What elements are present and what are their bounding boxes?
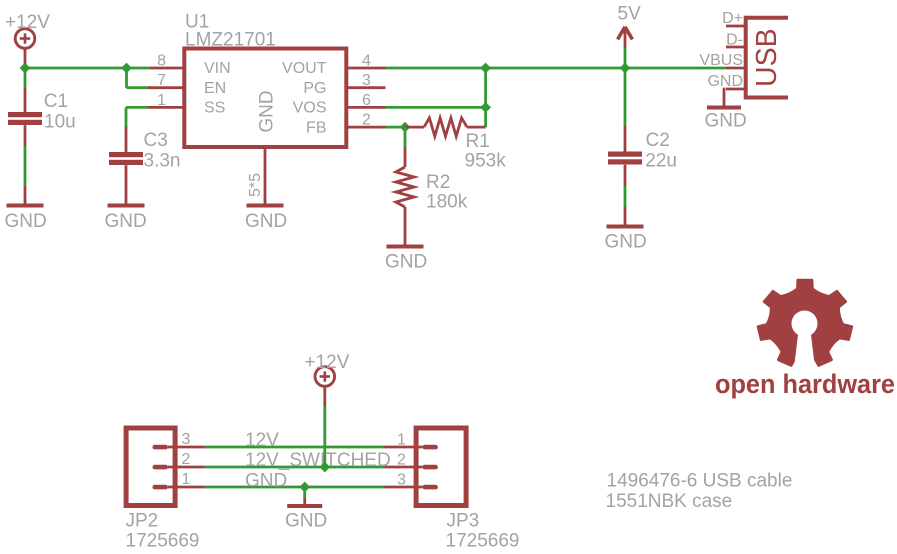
wire USB GND: [723, 88, 726, 106]
connector JP3 body: [416, 428, 519, 552]
svg-text:8: 8: [157, 52, 166, 69]
wire node E to R2: [404, 127, 407, 167]
capacitor C1: [8, 91, 76, 132]
pin 6 VOS: [346, 92, 385, 109]
wire +12V stub: [24, 48, 27, 68]
logo open hardware gear: [758, 280, 852, 366]
svg-text:JP2: JP2: [126, 511, 159, 532]
JP2 pad 3: [153, 431, 205, 449]
note case: [606, 491, 733, 512]
svg-text:5V: 5V: [618, 4, 642, 25]
svg-text:GND: GND: [245, 470, 287, 491]
wire SS to C3: [126, 107, 148, 152]
svg-text:1496476-6 USB cable: 1496476-6 USB cable: [607, 471, 793, 492]
ground GND JP: [285, 504, 327, 532]
wire FB net: [386, 126, 406, 129]
connector USB body: [746, 16, 788, 100]
svg-text:1551NBK case: 1551NBK case: [606, 491, 733, 512]
wire C1 to ground: [24, 125, 27, 204]
node D junction: [480, 102, 491, 113]
ground GND C3: [105, 204, 147, 233]
svg-text:D-: D-: [726, 31, 743, 48]
svg-text:GND: GND: [105, 211, 147, 232]
svg-text:R2: R2: [426, 172, 450, 193]
svg-text:GND: GND: [705, 111, 747, 132]
pin 4 VOUT: [346, 52, 385, 69]
svg-text:SS: SS: [204, 100, 225, 117]
wire VOUT rail: [386, 67, 727, 70]
svg-text:953k: 953k: [465, 151, 507, 172]
wire C2 to ground: [624, 165, 627, 225]
svg-text:2: 2: [362, 112, 371, 129]
ground GND C1: [5, 204, 47, 233]
svg-text:PG: PG: [303, 80, 326, 97]
svg-text:D+: D+: [722, 10, 743, 27]
svg-text:+12V: +12V: [305, 352, 350, 373]
USB pin D-: [726, 31, 746, 48]
svg-text:GND: GND: [245, 211, 287, 232]
wire GND drop: [303, 487, 306, 505]
JP2 pad 2: [153, 451, 205, 469]
svg-text:6: 6: [362, 92, 371, 109]
svg-text:1: 1: [182, 471, 191, 488]
USB pin GND: [707, 73, 745, 90]
U1 GND pin 5*5: [247, 147, 265, 204]
ground GND C2: [605, 225, 647, 253]
node A junction: [20, 63, 31, 74]
svg-text:GND: GND: [285, 511, 327, 532]
node B junction: [121, 63, 132, 74]
capacitor C2: [608, 130, 677, 172]
IC U1 body: [184, 12, 346, 148]
svg-text:2: 2: [397, 451, 406, 468]
svg-text:EN: EN: [204, 80, 226, 97]
node E junction: [400, 122, 411, 133]
svg-text:R1: R1: [466, 131, 490, 152]
node F junction: [620, 63, 631, 74]
JP3 pad 2: [385, 451, 438, 469]
svg-text:5*5: 5*5: [247, 173, 264, 197]
wire node A to C1: [24, 68, 27, 113]
wire node F to C2: [624, 68, 627, 152]
wire feedback vertical: [484, 68, 487, 127]
svg-text:C3: C3: [144, 130, 168, 151]
svg-text:3: 3: [397, 471, 406, 488]
ground GND R2: [385, 245, 427, 273]
svg-text:FB: FB: [306, 119, 326, 136]
wire +12V P2 drop: [323, 386, 326, 467]
svg-text:GND: GND: [257, 90, 278, 132]
pin 7 EN: [148, 72, 184, 89]
svg-text:4: 4: [362, 52, 371, 69]
svg-text:12V: 12V: [245, 430, 279, 451]
ground GND U1: [245, 204, 287, 233]
svg-text:1725669: 1725669: [126, 531, 200, 552]
JP3 pad 1: [385, 431, 438, 449]
svg-text:VIN: VIN: [204, 60, 231, 77]
resistor R1: [405, 118, 506, 172]
resistor R2: [396, 167, 468, 213]
U1 GND pin name: [257, 90, 278, 132]
wire net 12V: [205, 430, 385, 451]
svg-text:3: 3: [362, 72, 371, 89]
wire VOS net: [386, 106, 486, 109]
pin 8 VIN: [150, 52, 184, 69]
svg-text:1: 1: [397, 431, 406, 448]
pin 1 SS: [148, 92, 184, 109]
svg-text:+12V: +12V: [5, 12, 50, 33]
wire node B to EN: [127, 68, 151, 88]
svg-text:10u: 10u: [44, 111, 76, 132]
svg-text:1: 1: [157, 92, 166, 109]
svg-text:2: 2: [182, 451, 191, 468]
wire R2 to ground: [404, 207, 407, 245]
svg-text:3.3n: 3.3n: [144, 150, 181, 171]
node H junction: [299, 482, 310, 493]
svg-text:1725669: 1725669: [446, 531, 520, 552]
svg-text:USB: USB: [751, 28, 783, 87]
svg-text:12V_SWITCHED: 12V_SWITCHED: [245, 450, 391, 471]
note USB cable: [607, 471, 793, 492]
svg-text:180k: 180k: [426, 192, 468, 213]
svg-text:JP3: JP3: [447, 511, 480, 532]
pin 3 PG: [346, 72, 385, 89]
logo open hardware text: [715, 369, 895, 399]
wire C3 to ground: [125, 165, 128, 204]
wire net GND: [205, 470, 385, 491]
node C junction: [480, 63, 491, 74]
svg-text:VBUS: VBUS: [699, 52, 743, 69]
U1 pin names left: [204, 60, 231, 116]
supply 5V arrow: [618, 4, 642, 69]
svg-text:7: 7: [157, 72, 166, 89]
U1 pin names right: [282, 60, 327, 136]
svg-text:C1: C1: [44, 91, 68, 112]
svg-text:GND: GND: [5, 211, 47, 232]
svg-text:GND: GND: [385, 252, 427, 273]
svg-text:22u: 22u: [645, 151, 677, 172]
supply +12V P1: [5, 12, 50, 48]
USB pin D+: [722, 10, 746, 27]
JP2 pad 1: [153, 471, 205, 489]
supply +12V P2: [305, 352, 350, 386]
wire 12V rail: [25, 67, 150, 70]
svg-text:3: 3: [182, 431, 191, 448]
svg-text:LMZ21701: LMZ21701: [185, 30, 276, 51]
svg-text:VOUT: VOUT: [282, 60, 327, 77]
ground GND USB: [705, 106, 747, 132]
connector JP2 body: [126, 428, 200, 552]
svg-text:C2: C2: [646, 130, 670, 151]
capacitor C3: [109, 130, 180, 171]
JP3 pad 3: [385, 471, 438, 489]
wire net 12V_SWITCHED: [205, 450, 391, 471]
svg-text:GND: GND: [605, 232, 647, 253]
svg-text:GND: GND: [707, 73, 743, 90]
svg-text:open hardware: open hardware: [715, 369, 895, 399]
node G junction: [319, 462, 330, 473]
pin 2 FB: [346, 112, 385, 129]
USB pin VBUS: [699, 52, 745, 69]
svg-text:VOS: VOS: [293, 100, 327, 117]
